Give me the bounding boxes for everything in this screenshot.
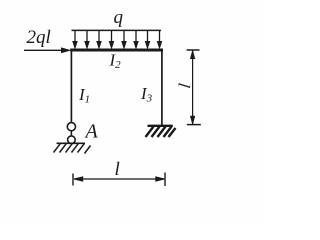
left column I1 (70, 49, 72, 123)
label q (114, 7, 124, 28)
label I2 (109, 51, 122, 72)
label l (bottom) (115, 159, 120, 180)
ground line at A (57, 142, 86, 144)
dimension line right (span l) (187, 50, 201, 125)
pin support link at A (67, 123, 75, 144)
force arrow 2ql (24, 48, 70, 53)
label I1 (78, 85, 90, 106)
label 2ql (27, 27, 51, 48)
dimension line bottom (span l) (73, 173, 165, 187)
label l (right, rotated) (175, 82, 194, 89)
svg-text:2ql: 2ql (27, 27, 51, 48)
hatching at A (54, 143, 91, 153)
distributed load arrows (73, 30, 162, 48)
distributed load line (72, 29, 162, 31)
svg-text:I3: I3 (140, 84, 153, 105)
fixed support ground (148, 125, 173, 127)
svg-text:I2: I2 (109, 51, 122, 72)
svg-text:I1: I1 (78, 85, 90, 106)
svg-text:A: A (84, 121, 99, 143)
svg-text:l: l (175, 82, 194, 89)
svg-text:l: l (115, 159, 120, 180)
right column I3 (161, 49, 163, 126)
label I3 (140, 84, 153, 105)
svg-text:q: q (114, 7, 124, 28)
top beam I2 (70, 49, 163, 52)
fixed support hatching (146, 127, 176, 138)
label A (84, 121, 99, 143)
